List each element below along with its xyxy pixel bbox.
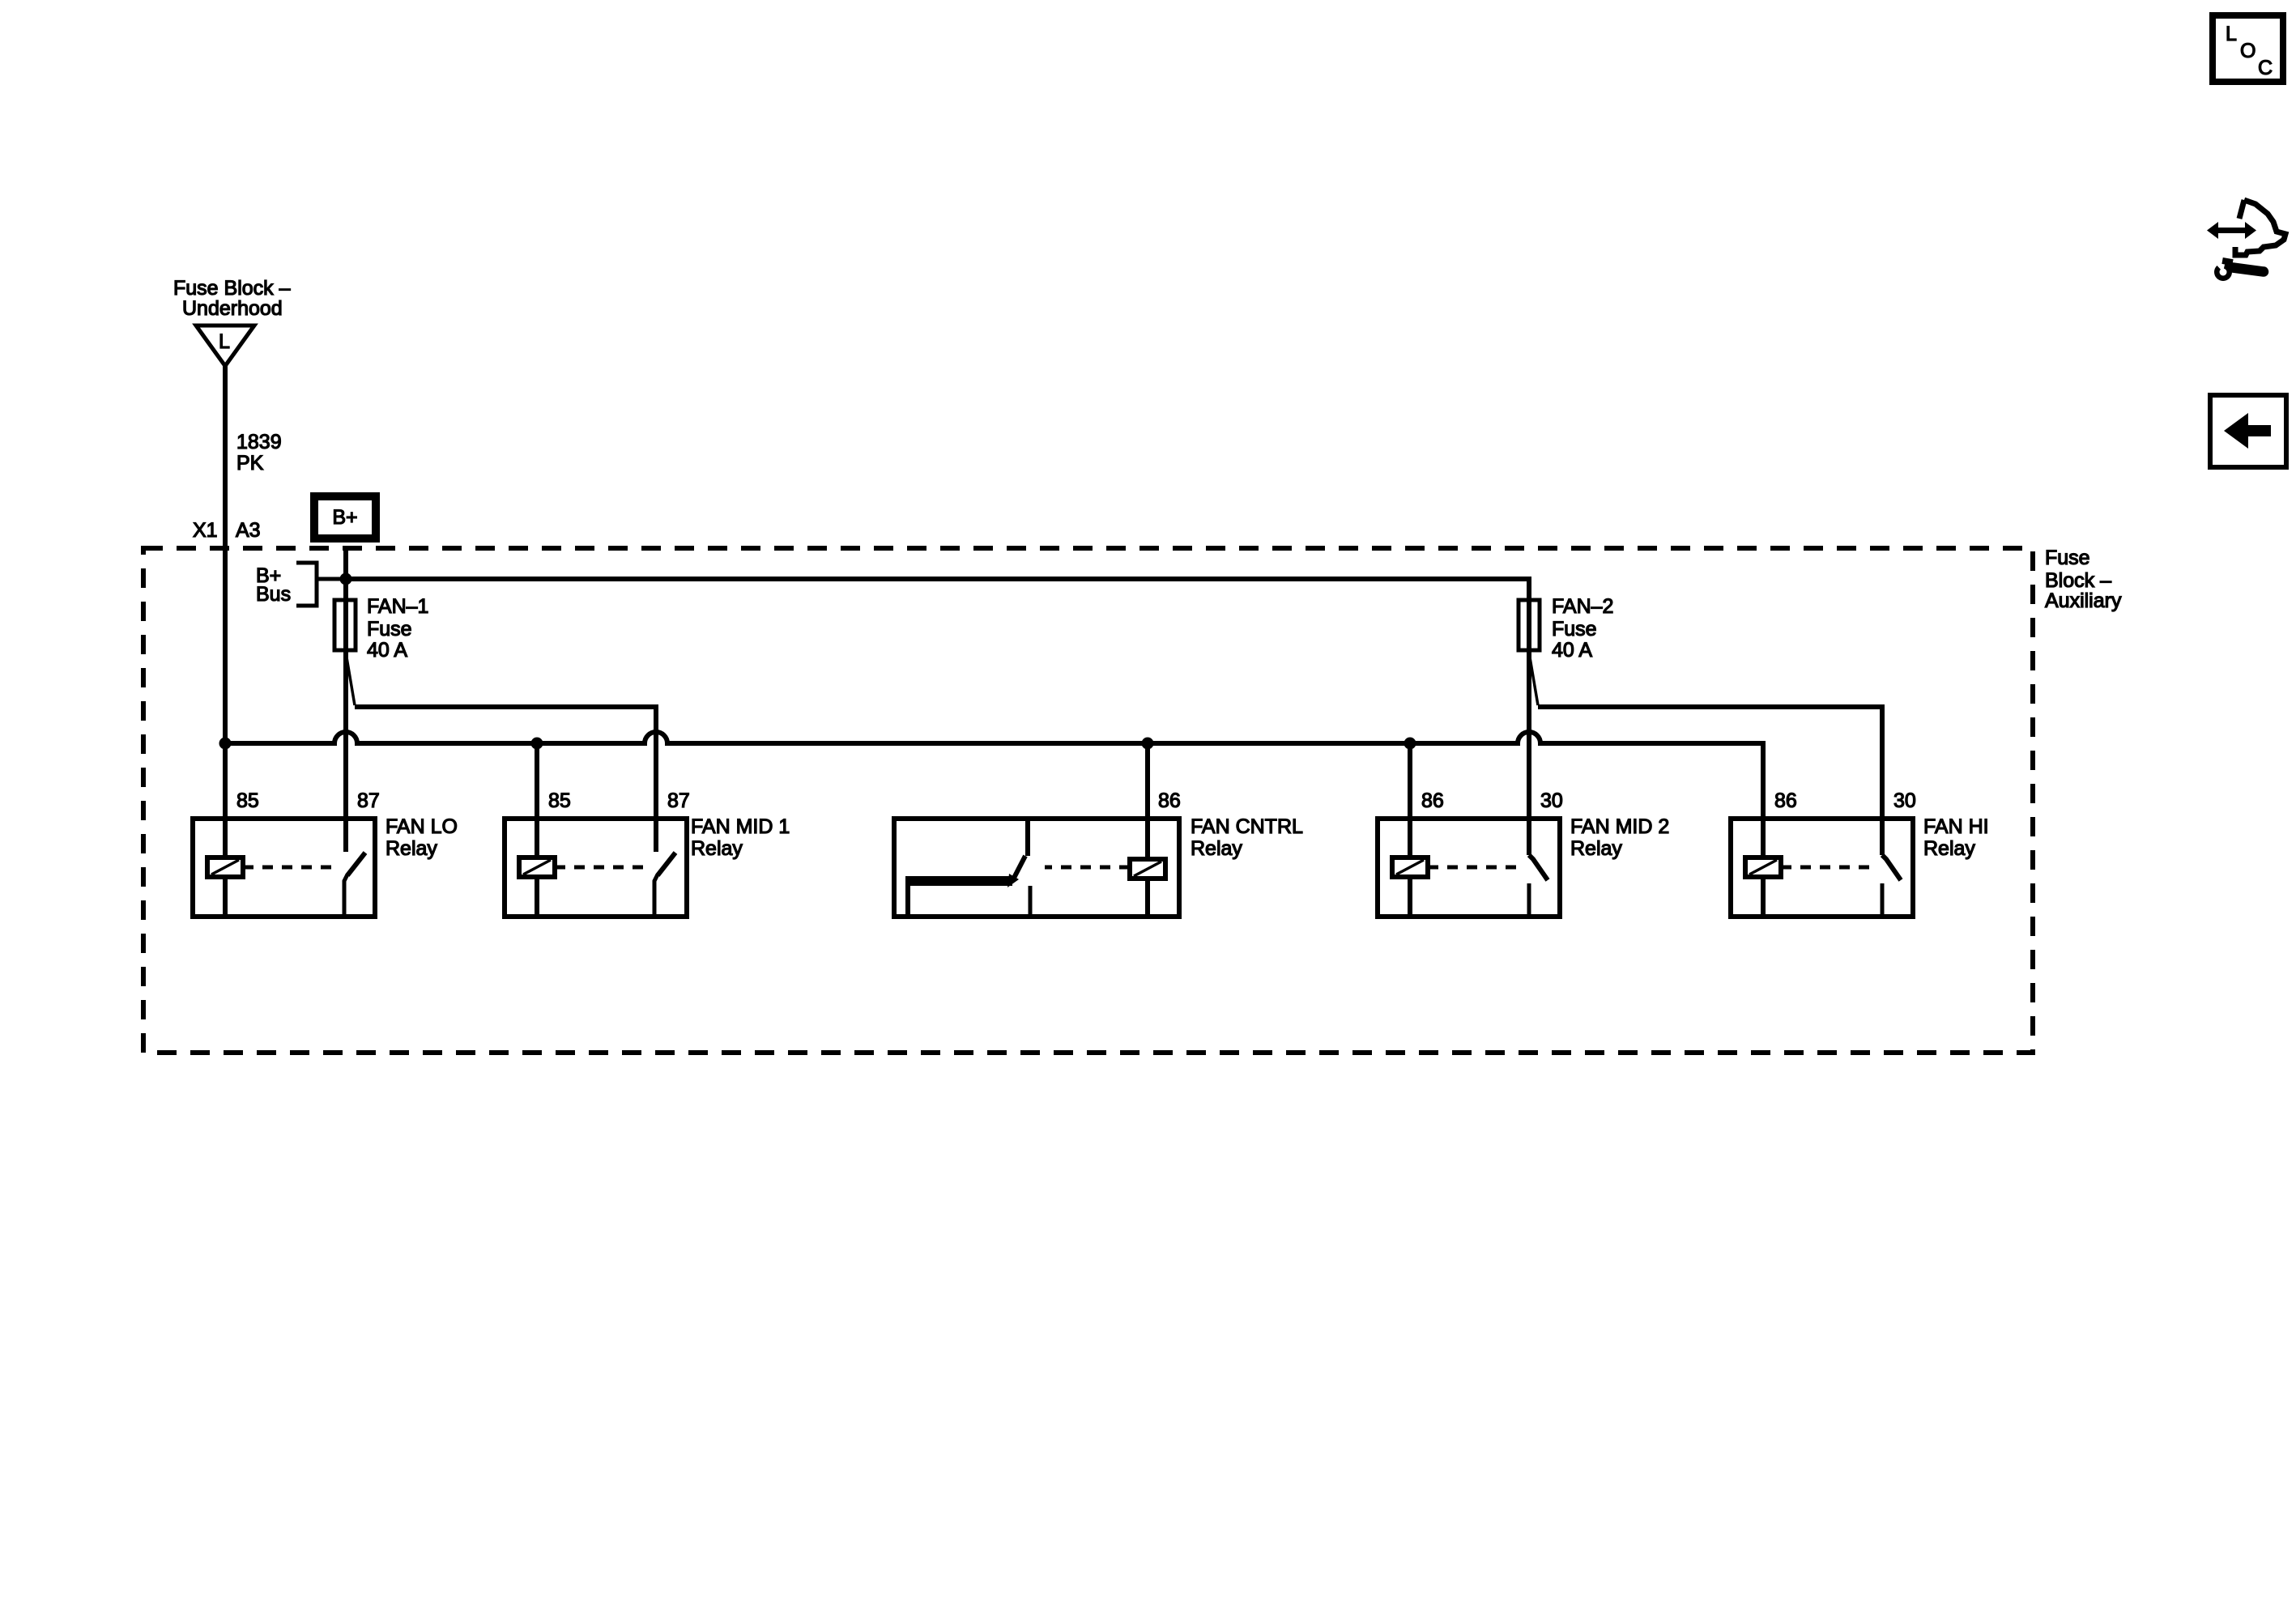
svg-text:FAN MID 1: FAN MID 1 — [691, 815, 790, 838]
svg-text:L: L — [219, 330, 230, 353]
svg-text:Fuse: Fuse — [367, 618, 412, 640]
svg-text:1839: 1839 — [236, 431, 282, 453]
svg-text:X1: X1 — [193, 519, 218, 542]
svg-text:Auxiliary: Auxiliary — [2045, 589, 2122, 612]
svg-text:30: 30 — [1540, 789, 1563, 812]
svg-text:B+: B+ — [332, 506, 357, 529]
svg-text:Fuse: Fuse — [2045, 547, 2090, 569]
svg-text:PK: PK — [236, 452, 264, 474]
svg-text:85: 85 — [236, 789, 259, 812]
svg-text:Fuse: Fuse — [1552, 618, 1597, 640]
svg-text:O: O — [2240, 40, 2256, 62]
svg-text:A3: A3 — [236, 519, 261, 542]
svg-text:Relay: Relay — [386, 837, 437, 860]
svg-text:Relay: Relay — [1191, 837, 1242, 860]
svg-text:30: 30 — [1893, 789, 1916, 812]
svg-text:86: 86 — [1158, 789, 1181, 812]
svg-text:85: 85 — [548, 789, 571, 812]
svg-text:Relay: Relay — [1570, 837, 1622, 860]
svg-text:40 A: 40 A — [367, 639, 407, 662]
svg-text:L: L — [2226, 23, 2237, 45]
svg-text:C: C — [2258, 57, 2273, 79]
svg-text:87: 87 — [667, 789, 690, 812]
svg-text:86: 86 — [1774, 789, 1797, 812]
svg-text:FAN LO: FAN LO — [386, 815, 458, 838]
svg-text:FAN CNTRL: FAN CNTRL — [1191, 815, 1303, 838]
svg-text:Relay: Relay — [1923, 837, 1975, 860]
svg-text:Block –: Block – — [2045, 569, 2111, 592]
svg-text:86: 86 — [1421, 789, 1444, 812]
svg-text:40 A: 40 A — [1552, 639, 1592, 662]
svg-text:87: 87 — [357, 789, 380, 812]
svg-text:FAN–1: FAN–1 — [367, 595, 428, 618]
svg-text:Relay: Relay — [691, 837, 743, 860]
svg-text:Bus: Bus — [256, 583, 291, 606]
svg-text:FAN MID 2: FAN MID 2 — [1570, 815, 1669, 838]
svg-text:FAN HI: FAN HI — [1923, 815, 1989, 838]
svg-text:Fuse Block –: Fuse Block – — [173, 277, 291, 300]
svg-text:FAN–2: FAN–2 — [1552, 595, 1613, 618]
svg-text:Underhood: Underhood — [182, 297, 283, 320]
